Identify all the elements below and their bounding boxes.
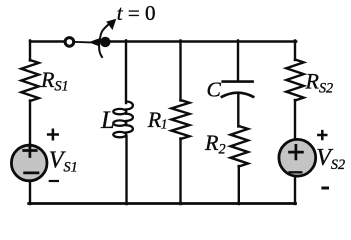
wire left vertical (top) [29,41,31,61]
wire R2 to bottom [238,166,240,204]
wire top-right segment [109,40,296,42]
svg-text:R1: R1 [147,107,168,132]
svg-text:RS2: RS2 [305,68,334,96]
capacitor C branch top wire [237,41,239,80]
wire left vertical (below VS1) [29,181,31,204]
svg-text:R2: R2 [204,130,226,158]
resistor R1 branch top wire [179,41,181,101]
inductor L branch bottom wire [125,137,127,205]
inductor L branch top wire [125,41,127,104]
switch blade arrowhead [89,38,100,47]
wire right vertical (below VS2) [294,177,296,204]
switch blade line [75,41,90,44]
resistor RS1 [21,60,39,101]
resistor R2 [231,126,249,167]
wire capacitor to R2 [237,93,239,126]
VS1 plus inside [24,145,37,157]
svg-text:t = 0: t = 0 [117,1,156,25]
source VS2 [279,139,316,176]
source VS1 [11,145,47,181]
svg-text:L: L [100,107,115,134]
resistor R1 branch bottom wire [179,139,181,205]
VS1 minus inside [25,172,38,175]
switch closed node (dot) [100,37,110,47]
svg-text:RS1: RS1 [40,67,69,95]
VS2 plus inside [290,145,303,159]
wire top-left segment [30,40,64,42]
resistor R1 [172,100,190,139]
svg-text:VS2: VS2 [316,145,345,173]
switch motion arrowhead [106,19,116,30]
VS2 external minus [321,187,329,190]
switch open terminal [65,38,74,47]
svg-text:VS1: VS1 [49,148,78,176]
wire right vertical (top) [294,41,296,61]
capacitor C top plate [223,80,253,83]
VS1 external plus [47,129,59,141]
VS1 external minus [49,180,59,182]
switch motion arc [99,22,112,57]
VS2 minus inside [290,171,302,173]
capacitor C bottom curved plate [222,93,253,97]
inductor L coil [126,102,133,110]
wire bottom [29,202,296,205]
VS2 external plus [317,130,327,140]
resistor RS2 [286,60,303,101]
svg-text:C: C [207,77,222,101]
wire right vertical (RS2 to VS2) [294,100,296,140]
wire RS1 to VS1 [29,101,31,146]
